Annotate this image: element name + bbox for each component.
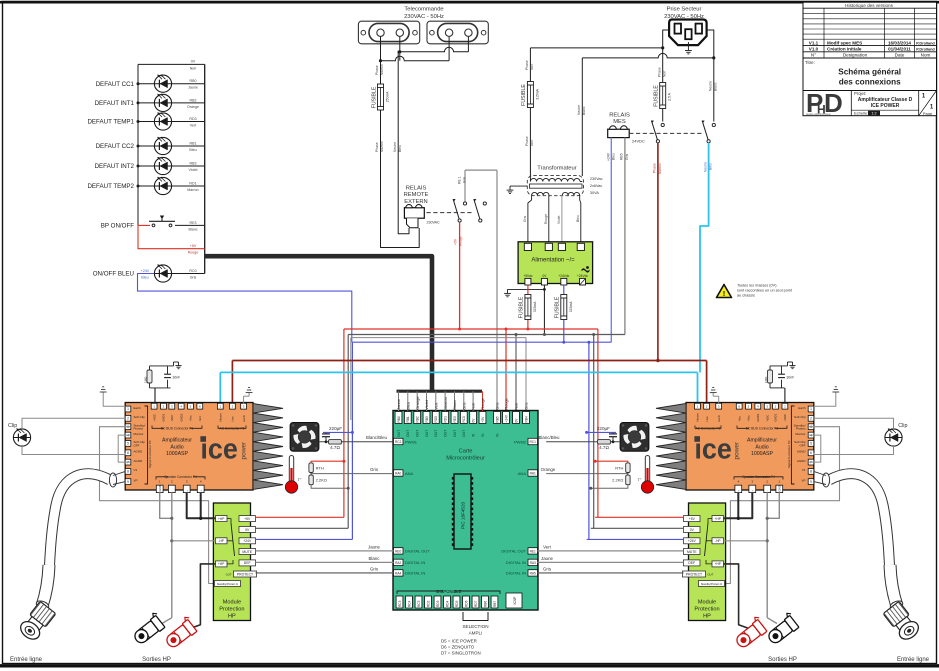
svg-text:Création initiale: Création initiale: [827, 47, 862, 52]
svg-text:Gris: Gris: [543, 566, 552, 571]
wire alim 0V to ground: [543, 285, 545, 335]
svg-text:Vert: Vert: [543, 544, 552, 549]
svg-text:Jaune: Jaune: [541, 556, 554, 561]
binding post black left: [130, 611, 167, 646]
wire gris ANA left: [310, 473, 312, 476]
svg-text:OFF: OFF: [134, 443, 140, 447]
wire clip LED right: [814, 418, 894, 429]
uC pin RB3: [426, 391, 428, 411]
svg-text:RB5: RB5: [620, 153, 624, 160]
svg-text:DIGITAL OUT: DIGITAL OUT: [501, 549, 526, 554]
svg-text:Modif spec MES: Modif spec MES: [827, 40, 862, 45]
svg-text:Gris: Gris: [524, 402, 529, 409]
svg-text:Marron: Marron: [658, 163, 662, 174]
svg-text:HP: HP: [703, 614, 711, 620]
protection left standby pin: [215, 581, 241, 587]
Clip LED right: [885, 429, 902, 446]
capacitor 220uF right: [612, 432, 614, 434]
heatsink left: [253, 404, 283, 490]
svg-text:RC3: RC3: [398, 600, 402, 607]
svg-text:RE 1: RE 1: [458, 176, 462, 184]
svg-text:Neutre: Neutre: [696, 413, 700, 422]
svg-text:Violet: Violet: [557, 216, 561, 224]
svg-text:Carte: Carte: [459, 449, 473, 455]
amp left pin 4 Monitor: [125, 432, 131, 438]
svg-text:DIGITAL IN: DIGITAL IN: [405, 571, 425, 576]
uC pin RA4: [394, 570, 404, 576]
svg-text:PWM2: PWM2: [514, 440, 527, 445]
svg-text:2.5 A: 2.5 A: [668, 92, 672, 100]
svg-text:DIGITAL IN: DIGITAL IN: [506, 571, 526, 576]
thermometer left: [289, 456, 293, 485]
svg-text:16/03/2014: 16/03/2014: [888, 40, 911, 45]
wire protection 0V left: [256, 527, 349, 529]
svg-text:Audio: Audio: [755, 444, 768, 450]
svg-text:DEF: DEF: [244, 561, 251, 565]
svg-text:+24V: +24V: [606, 152, 610, 161]
svg-text:RA1: RA1: [530, 472, 536, 476]
svg-text:Noir: Noir: [471, 402, 476, 410]
svg-text:BP ON/OFF: BP ON/OFF: [101, 223, 134, 230]
svg-text:Speaker Connector P4: Speaker Connector P4: [164, 475, 196, 479]
svg-text:Phase: Phase: [657, 67, 661, 77]
svg-text:FUSIBLE: FUSIBLE: [371, 86, 377, 108]
bus neutre cyan: [220, 371, 697, 373]
svg-text:+HP: +HP: [218, 517, 224, 521]
title block page: [918, 91, 920, 116]
svg-text:4.7Ω: 4.7Ω: [330, 445, 340, 450]
svg-text:V1: V1: [134, 468, 138, 472]
svg-text:Bleu: Bleu: [405, 402, 410, 410]
svg-text:230VAC - 50Hz: 230VAC - 50Hz: [404, 14, 444, 20]
svg-text:4.7Ω: 4.7Ω: [599, 445, 609, 450]
svg-text:DC BUS Connector P1: DC BUS Connector P1: [161, 427, 194, 431]
svg-text:Soft Clip: Soft Clip: [794, 415, 806, 419]
svg-text:PWM1: PWM1: [405, 440, 418, 445]
svg-text:RTH: RTH: [615, 465, 623, 470]
svg-text:Module: Module: [698, 600, 716, 606]
wire protection DEF left: [256, 561, 394, 563]
svg-text:+24V: +24V: [243, 539, 252, 543]
switch SW remote 1: [463, 202, 466, 205]
svg-text:RD4: RD4: [445, 600, 449, 607]
resistor 2.2K right: [626, 475, 630, 485]
svg-text:RB2: RB2: [416, 416, 420, 422]
svg-text:RD0: RD0: [434, 416, 438, 423]
amp left pin 6 AGND: [125, 450, 131, 456]
power supply module Alimentation: [518, 242, 593, 284]
protection left PROTECT pin: [234, 571, 257, 577]
svg-text:2: 2: [127, 417, 129, 421]
svg-text:Transformateur: Transformateur: [537, 165, 576, 171]
amp right AC connector P3: [695, 403, 701, 409]
svg-text:+HP: +HP: [715, 517, 721, 521]
svg-text:D5 = ICE POWER: D5 = ICE POWER: [441, 639, 477, 644]
uC pin RD0: [435, 391, 437, 411]
protection left HP pins: [216, 516, 228, 522]
svg-text:Neutre: Neutre: [393, 142, 397, 152]
RCA plug right: [883, 601, 922, 643]
svg-text:1: 1: [810, 407, 812, 411]
svg-text:5: 5: [127, 442, 129, 446]
svg-text:Blanc: Blanc: [189, 227, 198, 231]
svg-text:Entrée ligne: Entrée ligne: [10, 657, 43, 663]
svg-text:P.Drolland: P.Drolland: [916, 48, 935, 52]
wire gris ANA right: [627, 473, 629, 476]
svg-text:ANA: ANA: [405, 471, 414, 476]
svg-text:EXTERN: EXTERN: [404, 199, 428, 205]
wire 2.2K to 0V right: [591, 485, 628, 489]
cable end sleeve left: [109, 473, 116, 487]
svg-text:Speaker Connector P4: Speaker Connector P4: [742, 475, 774, 479]
svg-text:RD6: RD6: [464, 600, 468, 607]
board Carte Microcontroleur: [393, 411, 538, 611]
thermistor RTH left: [310, 461, 312, 463]
module protection HP right: [689, 503, 726, 621]
selection ampli bracket: [463, 612, 488, 621]
svg-text:-: -: [170, 491, 174, 492]
svg-text:Blanc: Blanc: [714, 82, 718, 91]
svg-text:Sorties HP: Sorties HP: [768, 657, 797, 663]
svg-text:Gris: Gris: [625, 153, 629, 160]
svg-text:OUT: OUT: [416, 430, 420, 437]
svg-text:Live: Live: [231, 416, 235, 422]
svg-text:Toutes les masses (0V): Toutes les masses (0V): [737, 284, 777, 288]
svg-text:Bleu: Bleu: [709, 163, 713, 170]
svg-text:Bleu: Bleu: [141, 275, 148, 279]
svg-text:2.2KΩ: 2.2KΩ: [316, 478, 327, 483]
svg-text:315mA: 315mA: [535, 88, 539, 99]
svg-text:RE0: RE0: [395, 550, 401, 554]
svg-text:OUT: OUT: [708, 572, 714, 576]
svg-text:PROTECT: PROTECT: [237, 572, 253, 576]
svg-text:MES: MES: [613, 119, 626, 125]
binding post red left: [162, 615, 199, 650]
wire RE1 gris: [465, 169, 497, 171]
svg-text:Prise Secteur: Prise Secteur: [667, 7, 702, 13]
svg-text:ıce: ıce: [200, 434, 238, 466]
svg-text:30VA: 30VA: [590, 191, 599, 195]
svg-text:RE1: RE1: [530, 550, 536, 554]
svg-text:RB1: RB1: [406, 416, 410, 422]
svg-text:ON/OFF BLEU: ON/OFF BLEU: [93, 271, 134, 278]
bus +5V red: [344, 328, 598, 330]
switch SW remote 2: [483, 202, 486, 205]
svg-text:Clip: Clip: [898, 423, 907, 429]
svg-text:24VDC: 24VDC: [632, 139, 645, 144]
amp right signal connector bracket: [791, 406, 794, 484]
uC pin RD6: [463, 596, 470, 608]
dashed link relay MES: [629, 132, 703, 134]
svg-text:DEFAUT INT2: DEFAUT INT2: [95, 163, 135, 170]
svg-text:+5V: +5V: [689, 517, 696, 521]
svg-text:RB3: RB3: [425, 416, 429, 422]
svg-text:RD1: RD1: [189, 181, 196, 185]
wire speaker + right: [724, 493, 753, 519]
svg-text:D6 = ZENQUITO: D6 = ZENQUITO: [441, 645, 475, 650]
wire to red post left: [190, 564, 216, 629]
svg-text:FUSIBLE: FUSIBLE: [521, 84, 527, 106]
svg-text:Gris: Gris: [523, 215, 527, 222]
amp module ICEpower right: [686, 403, 814, 491]
svg-text:230VAC: 230VAC: [427, 221, 441, 225]
amp left pin 5 Soft ClipOFF: [125, 441, 131, 447]
svg-text:Page: Page: [923, 111, 933, 116]
svg-text:Telecommande: Telecommande: [404, 7, 443, 13]
wire to black post left: [162, 618, 172, 624]
svg-text:AC Connector P3: AC Connector P3: [696, 427, 721, 431]
switch SW mains neutre: [712, 123, 715, 126]
svg-text:RD2: RD2: [426, 600, 430, 607]
svg-text:DIGITAL IN: DIGITAL IN: [405, 560, 425, 565]
uC pin RE3: [454, 391, 456, 411]
amp left speaker connector P4: [156, 485, 163, 492]
svg-text:GND: GND: [778, 485, 782, 491]
wire transformer primary left: [529, 48, 531, 82]
svg-text:T°: T°: [297, 477, 301, 482]
svg-text:DISPONIBLE: DISPONIBLE: [436, 589, 461, 594]
svg-text:des connexions: des connexions: [839, 78, 901, 87]
svg-text:+VDC: +VDC: [152, 414, 156, 422]
svg-text:+HP: +HP: [218, 562, 224, 566]
svg-text:Phase: Phase: [375, 65, 379, 75]
svg-text:Neutre: Neutre: [219, 413, 223, 422]
resistor 4.7ohm left: [319, 441, 393, 443]
wire transformer primary right: [581, 58, 583, 176]
wire sleeve to plug right: [899, 609, 907, 624]
svg-text:5: 5: [810, 442, 812, 446]
svg-text:RD3: RD3: [436, 600, 440, 607]
svg-text:OUT: OUT: [443, 430, 447, 437]
svg-text:Rouge: Rouge: [544, 214, 548, 224]
svg-text:IN: IN: [471, 433, 475, 437]
wire standby loop right: [725, 427, 840, 584]
wire protection +24V right: [587, 538, 684, 540]
wire speaker - left: [160, 493, 172, 519]
svg-text:Monitor: Monitor: [134, 432, 144, 436]
uC pin RA3: [528, 559, 538, 565]
uC pin RC4: [406, 596, 413, 608]
svg-text:6: 6: [810, 451, 812, 455]
wire protection +24V left: [256, 538, 353, 540]
thermistor RTH right: [627, 461, 629, 463]
svg-text:RA0: RA0: [395, 472, 401, 476]
svg-text:OUT: OUT: [462, 430, 466, 437]
svg-text:SELECTION: SELECTION: [462, 624, 488, 629]
svg-text:RD5: RD5: [455, 600, 459, 607]
svg-text:Gris: Gris: [370, 467, 379, 472]
uC pin RD1: [444, 391, 446, 411]
uC pin RB7: [491, 596, 498, 608]
svg-text:Titre:: Titre:: [805, 60, 815, 65]
amp right speaker connector P4: [776, 485, 783, 492]
fuse F4 315mA +5V: [527, 285, 529, 329]
svg-text:315mA: 315mA: [533, 301, 537, 312]
svg-text:Orange: Orange: [415, 396, 420, 410]
svg-text:RELAIS: RELAIS: [406, 186, 427, 192]
svg-text:PROTECT: PROTECT: [686, 572, 702, 576]
uC pin RB2: [416, 391, 418, 411]
svg-text:V1.1: V1.1: [809, 40, 819, 45]
uC pin RA5: [528, 570, 538, 576]
svg-text:2.2KΩ: 2.2KΩ: [612, 478, 623, 483]
svg-text:RC0: RC0: [189, 269, 196, 273]
uC pin RD4: [444, 596, 451, 608]
amp module ICEpower left: [125, 403, 253, 491]
amp right pin 6 AGND: [808, 450, 814, 456]
svg-text:Amplificateur: Amplificateur: [162, 438, 192, 444]
svg-text:OFF: OFF: [800, 443, 806, 447]
svg-text:Noir: Noir: [190, 66, 197, 70]
svg-text:+5V: +5V: [190, 244, 197, 248]
wire ladder top rail 0V: [138, 63, 205, 65]
ground transformer screen: [510, 185, 527, 187]
svg-text:T°: T°: [637, 477, 641, 482]
wire red RTH left: [311, 461, 344, 463]
svg-text:MUTE: MUTE: [687, 550, 697, 554]
svg-text:RD3: RD3: [189, 117, 196, 121]
svg-text:Alimentation ~/=: Alimentation ~/=: [531, 258, 575, 264]
wire ladder left rail: [137, 64, 139, 225]
cable end sleeve right: [822, 473, 829, 487]
svg-text:-HP: -HP: [715, 539, 721, 543]
wire neutre telecommande: [399, 37, 401, 61]
svg-text:DEFAUT CC2: DEFAUT CC2: [96, 143, 135, 150]
svg-text:+24V: +24V: [688, 539, 697, 543]
svg-text:Blanc: Blanc: [452, 400, 457, 410]
svg-text:Noir: Noir: [530, 139, 534, 146]
svg-text:MUTE: MUTE: [242, 550, 252, 554]
relay MES coil: [608, 129, 630, 137]
wire cable to amp pins left: [113, 471, 125, 475]
svg-text:RE3: RE3: [453, 416, 457, 422]
svg-text:AGND: AGND: [134, 459, 144, 463]
svg-text:GND: GND: [158, 485, 162, 491]
svg-text:Violet: Violet: [189, 168, 198, 172]
uC pin RE0: [394, 548, 404, 554]
svg-text:au chassis: au chassis: [737, 294, 755, 298]
heatsink right: [656, 404, 686, 490]
PIC 18F4520 chip: [454, 474, 471, 549]
svg-text:Jaune: Jaune: [396, 398, 401, 410]
uC pin RA0 ANA: [394, 470, 404, 476]
svg-text:V1.0: V1.0: [809, 47, 819, 52]
uC bottom pins DISPONIBLE: [397, 591, 443, 594]
svg-text:RC1: RC1: [530, 440, 537, 444]
wire +24V relais MES: [610, 138, 612, 343]
title block logo PHD: [850, 91, 852, 116]
svg-text:Rouge: Rouge: [504, 397, 509, 410]
module protection HP left: [213, 503, 250, 621]
svg-text:!: !: [723, 289, 726, 298]
svg-text:ICE POWER: ICE POWER: [871, 103, 900, 109]
svg-text:0V: 0V: [191, 60, 196, 64]
svg-text:RC4: RC4: [407, 600, 411, 607]
RC snubber left: [150, 365, 174, 367]
svg-text:RB3: RB3: [190, 161, 197, 165]
binding post red right: [732, 615, 769, 650]
svg-text:RB0: RB0: [190, 79, 197, 83]
wire protection DEF right: [538, 561, 684, 563]
svg-text:Jaune: Jaune: [368, 544, 381, 549]
amp right pin 9 VP: [808, 479, 814, 485]
shielded cable left: [49, 474, 110, 575]
svg-text:ICSP: ICSP: [513, 596, 517, 605]
svg-text:2x6Vac: 2x6Vac: [590, 184, 602, 188]
capacitor 220uF left: [325, 432, 327, 434]
svg-text:Noir: Noir: [514, 402, 519, 410]
svg-text:-Vcc: -Vcc: [198, 415, 202, 421]
svg-text:RB1: RB1: [190, 141, 197, 145]
svg-text:DEFAUT TEMP2: DEFAUT TEMP2: [87, 183, 134, 190]
svg-text:01/04/2011: 01/04/2011: [888, 47, 911, 52]
wire protection +5V right: [595, 516, 683, 518]
binding post black right: [764, 611, 801, 646]
svg-text:+5V: +5V: [481, 416, 485, 423]
svg-text:+5Vdc: +5Vdc: [523, 274, 533, 278]
wire RC to amp pin left: [154, 388, 156, 403]
svg-text:RB5: RB5: [495, 416, 499, 422]
svg-text:Gris: Gris: [190, 275, 197, 279]
amp left pin 2 Soft Clip: [125, 415, 131, 421]
svg-text:Standby/Protect In: Standby/Protect In: [701, 582, 723, 586]
transformer T1: [527, 175, 583, 195]
svg-text:1MΩ: 1MΩ: [764, 376, 768, 383]
svg-text:DC BUS Connector P1: DC BUS Connector P1: [746, 427, 779, 431]
svg-text:Protect: Protect: [134, 427, 144, 431]
svg-text:power: power: [733, 441, 740, 460]
svg-text:1MΩ: 1MΩ: [144, 376, 148, 383]
ground RC right: [787, 362, 789, 366]
svg-text:Echelle:: Echelle:: [854, 111, 868, 116]
svg-text:GND2: GND2: [756, 413, 760, 421]
svg-text:30nF: 30nF: [173, 376, 181, 380]
svg-text:RB0: RB0: [397, 416, 401, 422]
svg-text:1000ASP: 1000ASP: [751, 451, 773, 457]
uC pin RC0: [463, 391, 465, 411]
protection left supply pins: [239, 516, 256, 522]
uC pin RA1 ANA: [528, 470, 538, 476]
ground alim: [507, 289, 509, 293]
svg-text:Violet: Violet: [424, 399, 429, 410]
svg-text:Date: Date: [895, 53, 905, 58]
svg-text:6: 6: [127, 451, 129, 455]
svg-text:+5V: +5V: [454, 238, 458, 245]
wire monitor to AGND left: [118, 435, 131, 462]
connector J1 telecommande A: [358, 21, 419, 44]
svg-text:Blanc/Bleu: Blanc/Bleu: [539, 435, 561, 440]
svg-text:Bleu: Bleu: [398, 145, 402, 152]
wire neutre bleu telecommande: [397, 52, 399, 201]
amp left pin 1 Earth: [125, 406, 131, 412]
wire to red post right: [724, 564, 750, 629]
svg-text:ıce: ıce: [694, 434, 732, 466]
dashed link relay remote: [427, 212, 475, 214]
uC pin RB6: [482, 596, 489, 608]
protection right standby pin: [699, 581, 725, 587]
svg-text:AGND: AGND: [797, 450, 807, 454]
ground amp AC earth right: [718, 396, 720, 403]
protection right HP pins: [712, 516, 724, 522]
svg-text:VP: VP: [134, 478, 138, 482]
svg-text:AGND: AGND: [134, 450, 144, 454]
wire relais remote feeds: [398, 201, 409, 234]
svg-text:Marron: Marron: [187, 188, 198, 192]
wire phase to transformer: [530, 47, 662, 49]
amp right pin 7 AGND: [808, 459, 814, 465]
svg-text:Historique des versions: Historique des versions: [845, 3, 893, 8]
uC pin RA2: [394, 559, 404, 565]
